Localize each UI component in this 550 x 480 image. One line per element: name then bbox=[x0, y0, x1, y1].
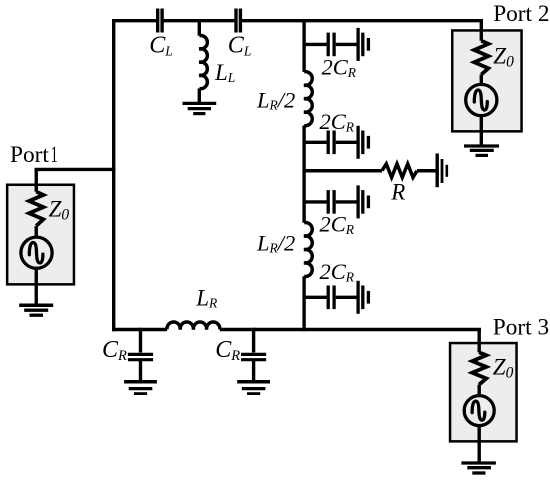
svg-text:2CR: 2CR bbox=[320, 259, 355, 285]
svg-text:LR: LR bbox=[195, 285, 218, 310]
svg-text:Port 3: Port 3 bbox=[493, 315, 549, 341]
svg-text:LR/2: LR/2 bbox=[256, 88, 295, 113]
svg-text:Port 2: Port 2 bbox=[493, 1, 549, 27]
svg-text:CL: CL bbox=[149, 33, 173, 59]
svg-text:CR: CR bbox=[215, 337, 240, 364]
svg-text:R: R bbox=[390, 180, 405, 205]
svg-text:CR: CR bbox=[102, 337, 127, 364]
svg-text:LR/2: LR/2 bbox=[256, 231, 295, 256]
svg-text:Port1: Port1 bbox=[10, 142, 58, 168]
svg-text:CL: CL bbox=[228, 33, 252, 59]
svg-text:LL: LL bbox=[214, 60, 235, 85]
svg-text:2CR: 2CR bbox=[322, 55, 357, 81]
svg-text:2CR: 2CR bbox=[320, 109, 355, 135]
svg-text:2CR: 2CR bbox=[320, 211, 355, 237]
